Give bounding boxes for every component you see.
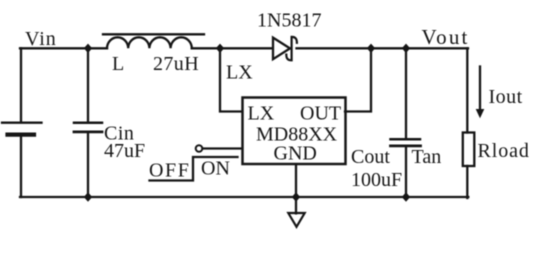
svg-text:47uF: 47uF [104,140,145,162]
svg-text:Iout: Iout [489,86,523,108]
node junction dot Cout top [402,44,410,53]
wire left vertical top (Vin to battery) [20,48,22,122]
wire battery to bottom rail [20,137,22,198]
diode D 1N5817 (schottky) [273,37,297,60]
svg-text:GND: GND [274,143,317,165]
svg-text:L: L [112,53,124,75]
svg-text:Vout: Vout [422,25,470,49]
svg-text:OFF: OFF [149,160,191,182]
wire Cin to bottom rail [87,133,89,197]
svg-text:100uF: 100uF [351,169,402,191]
wire Cin riser [87,48,89,122]
wire inductor to diode [192,47,273,49]
svg-text:27uH: 27uH [153,53,199,75]
wire Cout riser [405,48,407,138]
svg-text:ON: ON [201,158,230,180]
svg-text:Vin: Vin [25,28,57,50]
svg-text:1N5817: 1N5817 [257,10,321,32]
wire Cout to bottom rail [405,147,407,197]
ground [288,213,304,227]
node junction dot Vin/Cin [84,44,92,53]
battery (input source) [2,123,42,135]
capacitor Cin [74,123,102,132]
svg-text:LX: LX [226,62,253,84]
switch OFF/ON step waveform [150,157,238,181]
node junction dot Cout bottom [402,192,410,201]
svg-text:LX: LX [248,103,275,125]
wire Rload to bottom rail [466,166,468,198]
node junction dot LX [216,44,224,53]
wire node LX to pin LX [220,48,242,111]
node junction dot GND rail [292,192,300,201]
svg-text:Cout: Cout [351,146,390,168]
inductor L [103,34,204,48]
wire right vertical to Rload [466,48,468,132]
arrow Iout [476,67,485,119]
svg-text:OUT: OUT [300,103,341,125]
switch enable input (open terminal and wire to EN pin) [196,145,242,152]
IC MD88XX (regulator) [243,98,346,165]
wire top rail left (Vin to inductor) [20,47,107,49]
capacitor Cout (tantalum 100uF) [391,139,421,146]
node junction dot Cin bottom [84,192,92,201]
svg-text:Tan: Tan [412,146,442,168]
wire GND pin to rail [295,165,297,214]
wire diode to top-right corner [297,47,469,49]
wire pin OUT riser [345,48,371,111]
svg-text:Rload: Rload [478,140,530,162]
node junction dot OUT [367,44,375,53]
resistor Rload [463,133,475,167]
wire bottom rail (ground return) [20,196,468,198]
